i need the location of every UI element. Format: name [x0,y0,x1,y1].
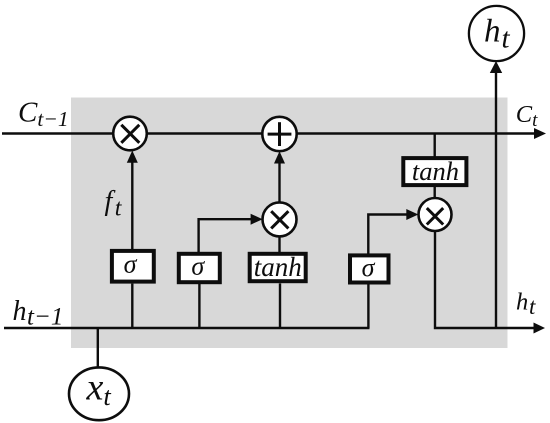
wire sigma3 to h line [367,285,369,329]
sigma box 2 [179,252,220,283]
arrowhead into mult1 [127,151,138,163]
multiply node 2 [263,202,297,236]
multiply node 1 [113,117,147,151]
sigma box 3 [350,253,389,283]
tanh box top [403,156,466,186]
svg-text:Ct: Ct [516,101,538,131]
svg-text:tanh: tanh [254,252,302,282]
wire sigma2 elbow to mult2 [199,219,252,252]
svg-text:Ct−1: Ct−1 [18,97,69,132]
wire h_t riser [495,72,497,328]
x_t input circle [69,367,129,421]
arrowhead into mult3 left [406,209,418,220]
svg-text:σ: σ [362,253,376,282]
arrowhead into mult2 left [251,214,263,225]
svg-text:σ: σ [124,250,138,279]
wire sigma1 up to mult1 (f_t) [131,162,133,249]
wire tanh-mid to mult2 [278,237,280,253]
wire h bottom line [4,327,370,329]
sigma box 1 [112,250,154,282]
cell body background [71,98,508,349]
tanh box mid [250,252,306,282]
wire output bottom line [435,231,535,328]
wire C line horizontal [2,132,535,134]
wire tanh-top to mult3 [434,187,436,199]
arrowhead into add [274,151,285,163]
multiply node 3 [419,198,452,231]
svg-text:ht: ht [516,289,536,320]
wire sigma3 elbow to mult3 [368,215,408,254]
arrowhead C_t [534,128,546,139]
svg-text:tanh: tanh [412,156,459,186]
svg-text:ht−1: ht−1 [13,296,64,331]
add node [262,117,296,151]
h_t output circle [469,6,524,61]
svg-text:σ: σ [191,252,205,281]
wire add to mult2 [278,162,280,203]
wire sigma2 to h line [198,284,200,328]
arrowhead h_t bottom [534,323,546,334]
wire C to tanh-top [434,134,436,158]
wire sigma1 to h line [131,284,133,328]
wire x_t feed [97,328,99,368]
arrowhead into h_t circle [490,61,502,73]
wire tanh-mid to h line [279,283,281,328]
